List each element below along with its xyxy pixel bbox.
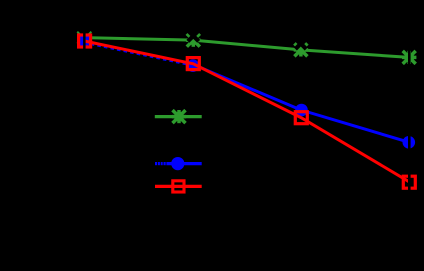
green marker p3 — [294, 43, 308, 56]
blue series line p2-p4 — [193, 65, 409, 143]
blue marker p4 — [403, 136, 416, 149]
legend blue dashes — [155, 162, 166, 165]
legend red sample line — [155, 185, 202, 188]
red marker p2 — [187, 58, 199, 70]
legend green sample line — [155, 115, 202, 118]
black X cover p2 — [188, 31, 199, 42]
black X cover p3 — [295, 38, 306, 49]
red marker p1 — [79, 35, 91, 47]
legend blue sample line — [166, 162, 201, 165]
blue series line segment p1-p2 (peeks below red as dashes) — [84, 42, 193, 65]
blue marker p3 — [295, 104, 308, 117]
blue marker p2 — [187, 59, 200, 72]
green marker p4 — [402, 51, 416, 64]
legend red marker — [173, 181, 184, 192]
green marker p1 — [77, 31, 91, 44]
red marker p4 — [403, 176, 415, 188]
green marker p2 — [186, 34, 200, 47]
red series line — [84, 41, 409, 182]
legend blue marker — [171, 157, 184, 170]
right plot border (black) — [408, 18, 411, 240]
red marker p3 — [295, 112, 307, 124]
legend green marker — [172, 110, 186, 123]
blue marker p1 — [78, 35, 91, 48]
green series line — [84, 38, 409, 58]
black X cover p1 — [78, 28, 91, 41]
left plot border (black) — [83, 18, 86, 240]
